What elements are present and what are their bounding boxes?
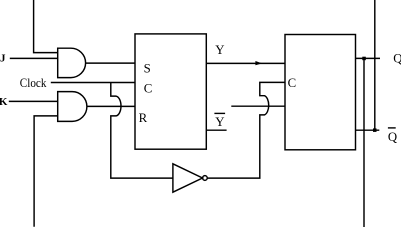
junction dot at Q-bar output bbox=[373, 128, 377, 132]
svg-text:Y: Y bbox=[215, 115, 224, 129]
inverter U3 triangle bbox=[173, 164, 203, 192]
wire: A1 output to S input of master latch bbox=[86, 62, 135, 64]
wire: Q feedback down to bottom edge bbox=[363, 58, 365, 227]
wire: Q feedback from bottom edge up to AND gate A2 lower input bbox=[34, 116, 58, 227]
wire: J input bbox=[10, 57, 58, 59]
wire: Y-bar output stub bbox=[206, 129, 226, 131]
AND gate A2 (K gate) bbox=[58, 92, 87, 122]
wire: into slave lower input bbox=[231, 105, 285, 107]
junction dot at Q output bbox=[362, 57, 366, 61]
svg-text:Y: Y bbox=[215, 43, 224, 57]
svg-text:K: K bbox=[0, 96, 8, 108]
wire: Y output of master to slave upper input bbox=[206, 62, 285, 64]
inverter U3 output bubble bbox=[203, 176, 208, 181]
svg-text:S: S bbox=[144, 62, 151, 76]
svg-text:Clock: Clock bbox=[20, 76, 47, 90]
wire: clock branch down to inverter input, hop over R wire bbox=[111, 83, 173, 179]
svg-text:Q: Q bbox=[393, 52, 401, 66]
svg-text:C: C bbox=[144, 81, 153, 95]
AND gate A1 (J gate) bbox=[58, 48, 86, 77]
overline of Y-bar label bbox=[214, 112, 225, 114]
svg-text:C: C bbox=[288, 76, 297, 90]
slave latch U2 bbox=[285, 35, 356, 150]
wire: K input bbox=[9, 100, 58, 102]
wire: Q-bar feedback from top edge down to AND gate A1 upper input bbox=[34, 0, 58, 53]
overline of Q-bar label bbox=[388, 127, 396, 129]
master latch U1 bbox=[135, 34, 206, 149]
wire: Q-bar feedback up to top edge bbox=[374, 0, 376, 130]
arrowhead on Y wire bbox=[255, 61, 262, 65]
wire: inverter output up to slave C input, hop over slave lower input wire bbox=[207, 82, 285, 178]
svg-text:Q: Q bbox=[388, 130, 398, 144]
wire: Clock to C input of master latch bbox=[51, 82, 135, 84]
svg-text:R: R bbox=[139, 111, 148, 125]
wire: A2 output to R input of master latch bbox=[87, 105, 135, 107]
wire: Q output bbox=[356, 57, 381, 59]
svg-text:J: J bbox=[0, 53, 6, 65]
wire: Q-bar output bbox=[356, 129, 380, 131]
